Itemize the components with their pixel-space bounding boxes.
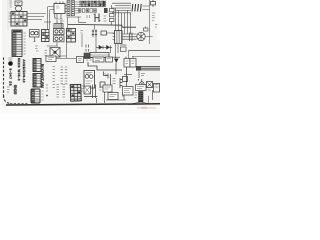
dashed border bottom run — [10, 102, 28, 104]
tiny marks far right low — [155, 25, 158, 28]
connector grid J4 — [67, 29, 76, 43]
ground arrow symbol — [114, 59, 119, 64]
capacitor C2 pair mid — [92, 25, 97, 37]
marks right — [148, 85, 159, 91]
connector J6 bottom block — [31, 89, 40, 103]
code mark column B — [61, 67, 68, 84]
resistor R2 — [120, 45, 127, 52]
band row2 small terminals — [79, 9, 97, 13]
wire below ECU — [115, 44, 117, 58]
marks left of F2 — [86, 58, 92, 60]
sheet bottom border — [6, 104, 160, 105]
capacitor bank C1 bars — [132, 4, 141, 12]
ignition coil L1 box with X — [50, 48, 60, 58]
resistor cluster below U1 — [55, 16, 64, 23]
connector grid J3 — [42, 30, 50, 42]
partial box edge — [120, 78, 123, 88]
tiny label text right — [152, 13, 155, 20]
faint watermark text — [137, 107, 156, 109]
sheet background — [0, 0, 160, 114]
box right edge — [154, 84, 160, 93]
switch S1 box with circles — [30, 30, 40, 42]
box with X — [147, 82, 153, 88]
wire down from K2 — [56, 42, 58, 46]
fuse strip band center — [84, 56, 120, 58]
wire — [79, 17, 87, 22]
fuse box F2 — [93, 57, 104, 62]
marks left of L1 — [45, 51, 48, 56]
svg-text:ACME/ECS-10: ACME/ECS-10 — [22, 60, 26, 83]
wire vertical right — [152, 90, 154, 100]
fuse box F3 — [106, 57, 113, 62]
wire vertical from bus — [138, 71, 140, 78]
wire horizontal — [124, 74, 132, 76]
wire — [67, 17, 69, 29]
small marks right of T1 — [104, 16, 107, 21]
wire to right vertical — [142, 6, 149, 10]
wire curve into U1 — [47, 7, 54, 30]
wire — [47, 45, 59, 47]
component cluster right of T1 — [110, 5, 115, 25]
svg-text:5N25: 5N25 — [13, 85, 17, 94]
wire col marks — [100, 85, 102, 90]
branch wire down — [115, 63, 117, 75]
ticks above vertical net — [81, 31, 84, 34]
small box below — [123, 77, 128, 82]
wire below X-box — [148, 96, 150, 104]
relay pair boxes right — [124, 57, 136, 68]
pin labels right of J2 — [24, 33, 26, 54]
label text top-left — [10, 1, 13, 7]
bus left smudge — [136, 66, 141, 71]
junction dot (black) — [8, 61, 13, 66]
small marks below S1 — [35, 46, 39, 51]
top-right feeder wires — [112, 3, 131, 13]
blower motor M1 — [137, 32, 145, 41]
wire to ECU box — [107, 32, 116, 34]
right bottom boxes — [123, 85, 147, 96]
sensor B1 symbol above J1 — [15, 1, 22, 12]
relay box K3 top — [46, 56, 76, 62]
lamp symbol circle — [139, 79, 145, 86]
relay K2 stacked circle boxes — [54, 29, 65, 42]
terminal strip X1 top band — [80, 1, 107, 6]
bottom-left tick marks — [7, 87, 10, 92]
wire curve — [49, 10, 54, 30]
dashed harness border left — [4, 58, 11, 104]
short wire right — [81, 34, 83, 47]
wires below boxes — [105, 92, 127, 103]
svg-text:BLK/WHT-GM: BLK/WHT-GM — [40, 64, 44, 88]
wires ECU to motor — [122, 33, 137, 42]
wire lower — [132, 55, 160, 57]
shield braid element — [129, 92, 151, 105]
transformer T1 H symbol — [94, 14, 101, 23]
connector J5b block — [33, 74, 41, 88]
flasher relay K4 box with circles — [84, 71, 95, 89]
long bus wire mid sheet — [68, 23, 122, 26]
mark col bottom b — [57, 85, 66, 98]
wire J1 to left bus — [27, 13, 46, 15]
label marks left of J1 — [9, 13, 11, 22]
thick wire bus right — [136, 67, 160, 70]
wire step down right — [122, 25, 136, 27]
wire segment left of U1 bottom — [44, 21, 51, 23]
vertical wires to bus bar — [96, 37, 118, 53]
vertical net wire — [149, 0, 151, 20]
dark hatch block left of bus bar — [84, 53, 90, 59]
box pair bottom mid — [103, 85, 118, 100]
mark col bottom a — [46, 85, 48, 96]
pin labels right of J7 — [82, 86, 84, 91]
vertical harness wires to mid-right — [116, 8, 131, 34]
transistor cluster Q1 — [100, 72, 116, 88]
connector J2 pin-list block left — [12, 30, 22, 57]
small box above motor — [144, 27, 149, 32]
connector J1 grid block top-left — [11, 12, 27, 27]
connector J7 hatched block bottom — [70, 84, 81, 101]
small box R1 — [101, 31, 107, 35]
wire vertical right of L1 — [60, 42, 67, 58]
svg-text:8-047 2B: 8-047 2B — [9, 69, 13, 87]
tick marks near T1 — [87, 15, 90, 18]
thick stair wire — [88, 62, 122, 70]
bus bar box low wide — [90, 53, 109, 58]
tick marks ii — [86, 45, 89, 52]
fuse F1 top right — [151, 0, 156, 7]
relay K1 hatched box below U1 — [54, 24, 63, 29]
marks left of braid — [135, 93, 138, 98]
op IC U1 — [54, 2, 70, 19]
wire down from boxes — [126, 67, 128, 88]
wire motor right — [146, 20, 153, 44]
marks above dot — [9, 58, 13, 60]
connector J5a block — [33, 59, 41, 72]
long wire right mid — [129, 50, 161, 52]
cluster boxes bottom center — [84, 85, 98, 104]
small box right — [77, 57, 84, 63]
small label marks under bus — [141, 74, 145, 76]
wire — [27, 16, 44, 18]
diode matrix D1 dotted strips — [67, 1, 74, 16]
svg-text:5N2S WJ8-0: 5N2S WJ8-0 — [17, 58, 21, 81]
ribbon wires strip to band — [75, 2, 80, 13]
wire — [27, 19, 42, 21]
ECU module box — [113, 31, 123, 44]
wire — [128, 51, 130, 60]
code mark column A — [53, 67, 56, 88]
diode row D2 — [96, 46, 112, 50]
wire below D1 — [67, 16, 82, 18]
